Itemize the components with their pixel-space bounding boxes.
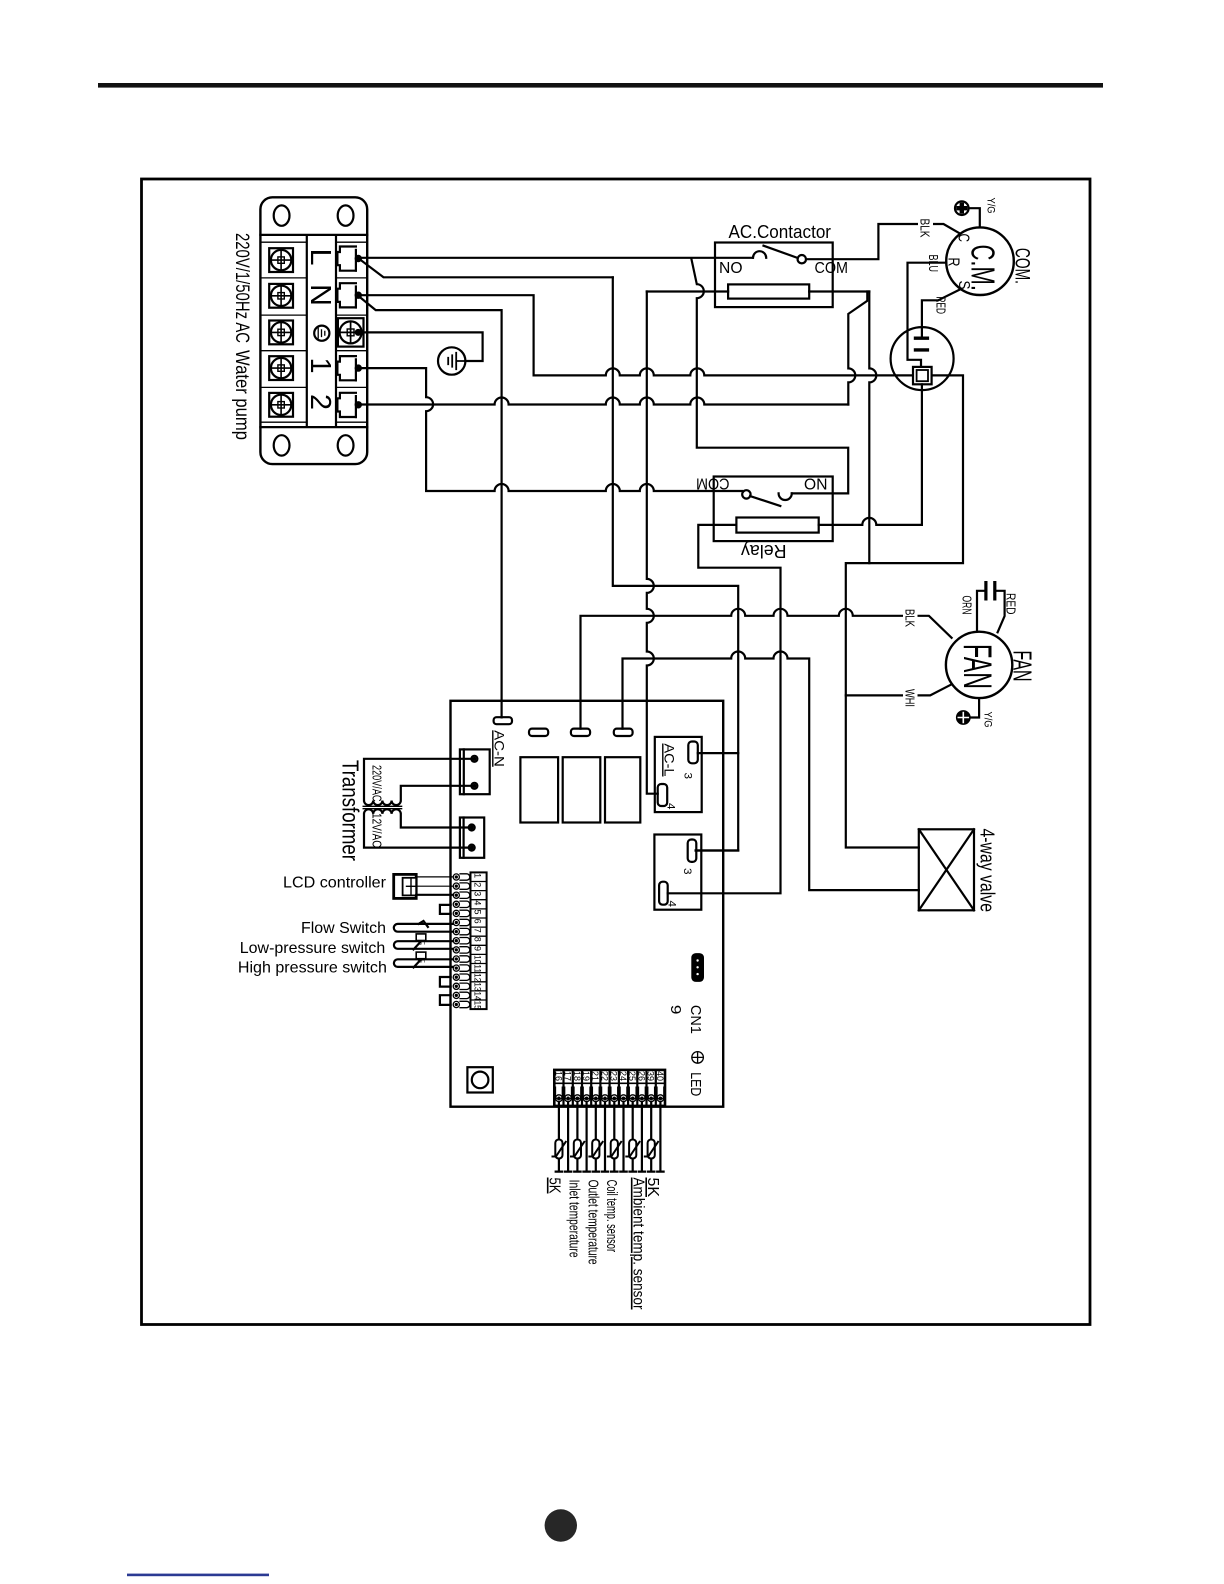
earth symbol	[438, 347, 465, 374]
svg-text:5K: 5K	[546, 1178, 563, 1194]
TB1 dividers	[260, 235, 367, 427]
relay coil	[736, 518, 818, 533]
svg-text:Water pump: Water pump	[231, 350, 252, 440]
wire YG screw to CM	[969, 208, 980, 227]
TB1 screw row N	[269, 284, 293, 308]
diagram border frame	[142, 179, 1091, 1325]
svg-text:11: 11	[473, 964, 483, 973]
relay COM pivot	[742, 490, 750, 498]
svg-text:4-way valve: 4-way valve	[976, 829, 998, 913]
svg-text:N: N	[304, 284, 336, 306]
svg-text:3: 3	[681, 868, 693, 875]
svg-text:ORN: ORN	[960, 596, 975, 615]
svg-text:LP: LP	[418, 938, 425, 945]
strip15 pin 10	[453, 956, 470, 962]
svg-text:LCD controller: LCD controller	[283, 875, 387, 892]
PCB board outline	[451, 701, 724, 1107]
wire v4 N-feed down to AC-L pin4	[647, 292, 658, 794]
pad 4	[614, 729, 633, 736]
AC-L pin4 pad	[658, 784, 668, 806]
strip15 pin 12	[453, 974, 470, 980]
wire N to capacitor square line	[358, 295, 914, 375]
TB1 clamp N	[337, 283, 361, 307]
wire L branch diagonal	[358, 258, 613, 277]
strip15 pin 7	[453, 928, 470, 934]
strip15 pin 13	[453, 983, 470, 989]
svg-text:12V/AC: 12V/AC	[370, 813, 385, 848]
relay K1	[520, 757, 558, 822]
svg-text:Y/G: Y/G	[985, 198, 997, 214]
svg-text:220V/AC: 220V/AC	[370, 765, 385, 802]
LP tag box	[416, 934, 426, 945]
temp sensor 1 body	[552, 1140, 567, 1159]
transformer primary winding	[364, 759, 474, 805]
AC-L pin3 pad	[688, 742, 698, 764]
PCB mount square	[467, 1067, 492, 1092]
svg-text:HP: HP	[418, 956, 426, 963]
LED symbol	[692, 1052, 704, 1064]
temp sensor 6 body	[644, 1140, 659, 1159]
wire Va coil to terminal2 junction	[848, 292, 867, 405]
contactor blade	[764, 246, 798, 258]
strip15 pin 2	[453, 883, 470, 889]
TB1 screw row 2	[269, 393, 293, 417]
svg-text:C: C	[955, 234, 972, 243]
svg-text:Relay: Relay	[741, 541, 787, 561]
strip15 pin 3	[453, 892, 470, 898]
svg-text:Ambient temp. sensor: Ambient temp. sensor	[630, 1178, 647, 1311]
TB1 clamp 1	[337, 356, 361, 380]
svg-text:High pressure switch: High pressure switch	[238, 959, 387, 976]
temp sensor 2 body	[570, 1140, 585, 1159]
temp sensor 4 body	[607, 1140, 622, 1159]
TB1 screw row 1	[269, 356, 293, 380]
svg-text:Coil temp. sensor: Coil temp. sensor	[603, 1180, 620, 1253]
svg-text:Transformer: Transformer	[338, 760, 364, 861]
page number dot	[545, 1509, 577, 1541]
temp sensor 4 wires	[611, 1102, 627, 1172]
svg-text:Low-pressure switch: Low-pressure switch	[240, 940, 385, 957]
strip15 pin 8	[453, 938, 470, 944]
wire TB ground to earth symbol	[364, 332, 483, 361]
svg-text:FAN: FAN	[955, 644, 999, 689]
AC contactor box	[715, 243, 833, 308]
contactor COM pivot	[798, 255, 806, 263]
svg-text:LED: LED	[687, 1072, 704, 1096]
svg-text:Flow Switch: Flow Switch	[301, 920, 386, 937]
bottom terminal strip body	[554, 1070, 665, 1106]
wire block2 pin3 to B riser	[696, 849, 739, 851]
temp sensor 3 body	[588, 1140, 603, 1159]
svg-text:220V/1/50Hz AC: 220V/1/50Hz AC	[231, 233, 252, 343]
svg-text:Inlet temperature: Inlet temperature	[566, 1180, 583, 1258]
HP switch symbol	[394, 959, 453, 968]
capacitor terminal square	[913, 367, 932, 384]
temp sensor 5 body	[625, 1140, 640, 1159]
wire relay coil left to block2 pin4	[668, 525, 781, 893]
svg-text:COM: COM	[815, 260, 849, 277]
svg-text:NO: NO	[719, 260, 743, 277]
wire square right to common drop	[846, 375, 963, 847]
HP tag box	[416, 952, 426, 963]
svg-text:15: 15	[473, 1001, 483, 1010]
svg-text:S: S	[955, 281, 972, 290]
label BLK (FAN) bg	[903, 608, 918, 630]
label BLK (CM) bg	[918, 217, 933, 239]
jumper pins 12-13	[440, 977, 451, 987]
svg-text:AC-N: AC-N	[492, 730, 508, 767]
wire N diagonal to AC-N	[358, 296, 501, 718]
TB1 left cell borders	[260, 242, 306, 422]
wire CM R to capacitor BLU	[908, 263, 947, 367]
FAN YG screw	[957, 711, 970, 724]
contact notch NO (relay)	[779, 493, 792, 500]
wire terminal1 to relay COM	[358, 368, 742, 491]
temp sensor 1 wires	[556, 1102, 572, 1172]
label WHI (FAN) bg	[903, 688, 918, 710]
15pin strip body	[471, 872, 487, 1009]
svg-text:4: 4	[473, 900, 483, 905]
riser L to relay NO	[691, 259, 848, 494]
svg-text:9: 9	[473, 946, 483, 951]
footer blue line	[127, 1574, 269, 1577]
wire AC-L pin3 tap	[698, 752, 738, 754]
svg-text:BLK: BLK	[903, 609, 918, 627]
terminal block TB1 body	[260, 197, 367, 464]
svg-text:Y/G: Y/G	[982, 712, 994, 728]
pad 2	[529, 729, 548, 736]
svg-text:AC.Contactor: AC.Contactor	[729, 222, 832, 242]
pad AC-N	[494, 717, 512, 724]
capacitor plates	[914, 338, 929, 350]
svg-text:13: 13	[473, 982, 483, 991]
svg-text:2: 2	[473, 882, 483, 887]
CM YG screw	[955, 201, 969, 215]
wire square to relay coil	[819, 384, 922, 525]
svg-text:AC-L: AC-L	[662, 744, 678, 777]
svg-text:5: 5	[473, 910, 483, 915]
top rule	[98, 83, 1103, 88]
svg-text:1: 1	[473, 873, 483, 878]
LCD wires to pins 1-3	[416, 877, 453, 886]
strip15 pin 4	[453, 901, 470, 907]
svg-text:BLK: BLK	[918, 219, 933, 238]
svg-text:2: 2	[304, 394, 336, 410]
wire contactor coil left to v4	[647, 290, 728, 292]
FAN YG wire	[970, 698, 979, 717]
AC-L connector block	[655, 737, 702, 812]
LP switch symbol	[394, 941, 453, 950]
svg-text:3: 3	[473, 891, 483, 896]
transformer upper connector	[460, 749, 490, 794]
temp sensor 3 wires	[593, 1102, 609, 1172]
svg-text:4: 4	[665, 803, 677, 810]
wire terminal2 to junction	[358, 398, 848, 405]
pad 3	[571, 729, 590, 736]
temp sensor 5 wires	[630, 1102, 646, 1172]
relay box	[714, 477, 833, 542]
TB1 ground screw right	[338, 318, 364, 346]
4way valve box	[919, 829, 974, 910]
contactor coil	[728, 284, 809, 298]
TB1 clamp 2	[337, 393, 361, 417]
svg-text:NO: NO	[804, 475, 828, 492]
TB1 right cell borders	[336, 242, 367, 422]
svg-text:8: 8	[473, 937, 483, 942]
wire BLK net pad3 to FAN	[581, 609, 952, 729]
transformer secondary winding	[364, 809, 472, 847]
svg-text:FAN: FAN	[1008, 651, 1038, 682]
strip15 pin 5	[453, 910, 470, 916]
CM run capacitor circle	[891, 327, 954, 390]
TB1 screw row ground	[269, 321, 293, 345]
transformer core	[363, 806, 403, 808]
CM motor circle	[946, 227, 1014, 295]
svg-text:COM.: COM.	[1011, 248, 1034, 284]
wire WHI tap	[846, 685, 951, 696]
svg-text:4: 4	[666, 901, 678, 908]
svg-text:12: 12	[473, 973, 483, 982]
svg-text:1: 1	[304, 358, 336, 374]
jumper pins 4-5	[440, 905, 451, 914]
FAN capacitor plates	[986, 581, 995, 601]
connector block 2	[654, 835, 701, 910]
temp sensor 2 wires	[574, 1102, 590, 1172]
temp sensor 6 wires	[648, 1102, 664, 1172]
svg-text:WHI: WHI	[903, 689, 918, 707]
block2 pin3 pad	[688, 840, 697, 862]
wire pad4 net to 4way valve	[623, 652, 919, 891]
svg-text:10: 10	[473, 955, 483, 964]
svg-text:7: 7	[473, 928, 483, 933]
jumper pins 14-15	[440, 995, 451, 1005]
relay K2	[563, 757, 601, 822]
svg-text:COM: COM	[696, 475, 730, 492]
svg-text:CN1: CN1	[687, 1005, 704, 1034]
LCD controller plug icon	[394, 874, 417, 898]
wire contactor COM to CM terminal C	[806, 224, 960, 259]
TB1 mounting holes	[274, 205, 354, 455]
strip15 pin 15	[453, 1001, 470, 1007]
strip15 pin 14	[453, 992, 470, 998]
svg-text:6: 6	[473, 919, 483, 924]
contact notch NO (contactor)	[753, 251, 766, 258]
strip15 pin 9	[453, 947, 470, 953]
svg-text:3: 3	[682, 773, 694, 780]
strip15 pin 1	[453, 874, 470, 880]
FAN capacitor leads	[977, 591, 1005, 633]
wire Vb coil to common drop	[869, 292, 876, 564]
block2 pin4 pad	[659, 882, 668, 905]
flow switch symbol	[394, 921, 453, 932]
strip15 pin 6	[453, 919, 470, 925]
svg-text:Outlet temperature: Outlet temperature	[585, 1180, 602, 1265]
wire contactor coil right	[809, 290, 869, 292]
wire v3 L-feed down to PCB AC-L pin3 net	[613, 277, 738, 850]
strip15 pin 11	[453, 965, 470, 971]
FAN motor circle	[946, 632, 1012, 698]
svg-text:14: 14	[473, 992, 483, 1001]
relay blade	[750, 496, 780, 506]
svg-text:RED: RED	[1004, 593, 1019, 615]
TB1 screw row L	[269, 248, 293, 272]
relay K3	[605, 757, 640, 822]
svg-text:5K: 5K	[644, 1178, 661, 1198]
TB1 clamp L	[337, 247, 361, 271]
TB1 ground symbol	[314, 326, 329, 341]
svg-text:40: 40	[654, 1071, 665, 1081]
wire CM S to capacitor RED	[922, 290, 960, 337]
svg-text:9: 9	[667, 1005, 684, 1015]
transformer lower connector	[460, 818, 484, 858]
svg-text:L: L	[304, 249, 336, 266]
wire L to contactor NO	[358, 257, 753, 259]
CN1 black connector	[691, 953, 704, 982]
